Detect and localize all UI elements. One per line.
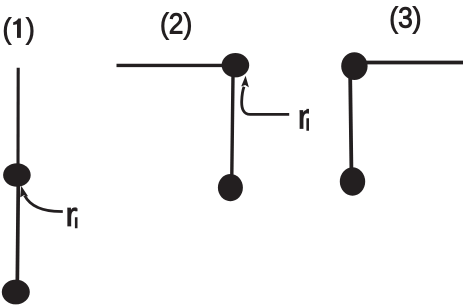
svg-text:r: r [65, 196, 77, 234]
node: case 2 bottom vertex [218, 174, 243, 201]
wire: case 2 vertical segment [232, 75, 233, 176]
node: case 3 top vertex [341, 52, 367, 80]
wire: case 1 upper vertical segment [16, 68, 19, 168]
arrow pointing to node r_i of case 1 [20, 186, 63, 212]
wire: case 1 lower vertical segment [17, 182, 18, 284]
node: case 1 bottom vertex [2, 280, 30, 305]
arrow pointing to node r_i of case 2 [241, 76, 289, 115]
wire: case 2 horizontal segment [117, 64, 225, 67]
svg-text:(2): (2) [160, 7, 192, 39]
svg-text:r: r [298, 99, 310, 137]
node: case 1 middle vertex r_i [3, 163, 31, 187]
svg-text:): ) [26, 12, 35, 44]
svg-text:(: ( [2, 12, 12, 44]
svg-text:(3): (3) [389, 2, 421, 34]
node: case 2 top vertex r_i [222, 53, 250, 77]
wire: case 3 vertical segment [350, 78, 351, 169]
node: case 3 bottom vertex [340, 167, 365, 195]
case label (1) [2, 12, 34, 44]
wire: case 3 horizontal segment [365, 61, 463, 65]
